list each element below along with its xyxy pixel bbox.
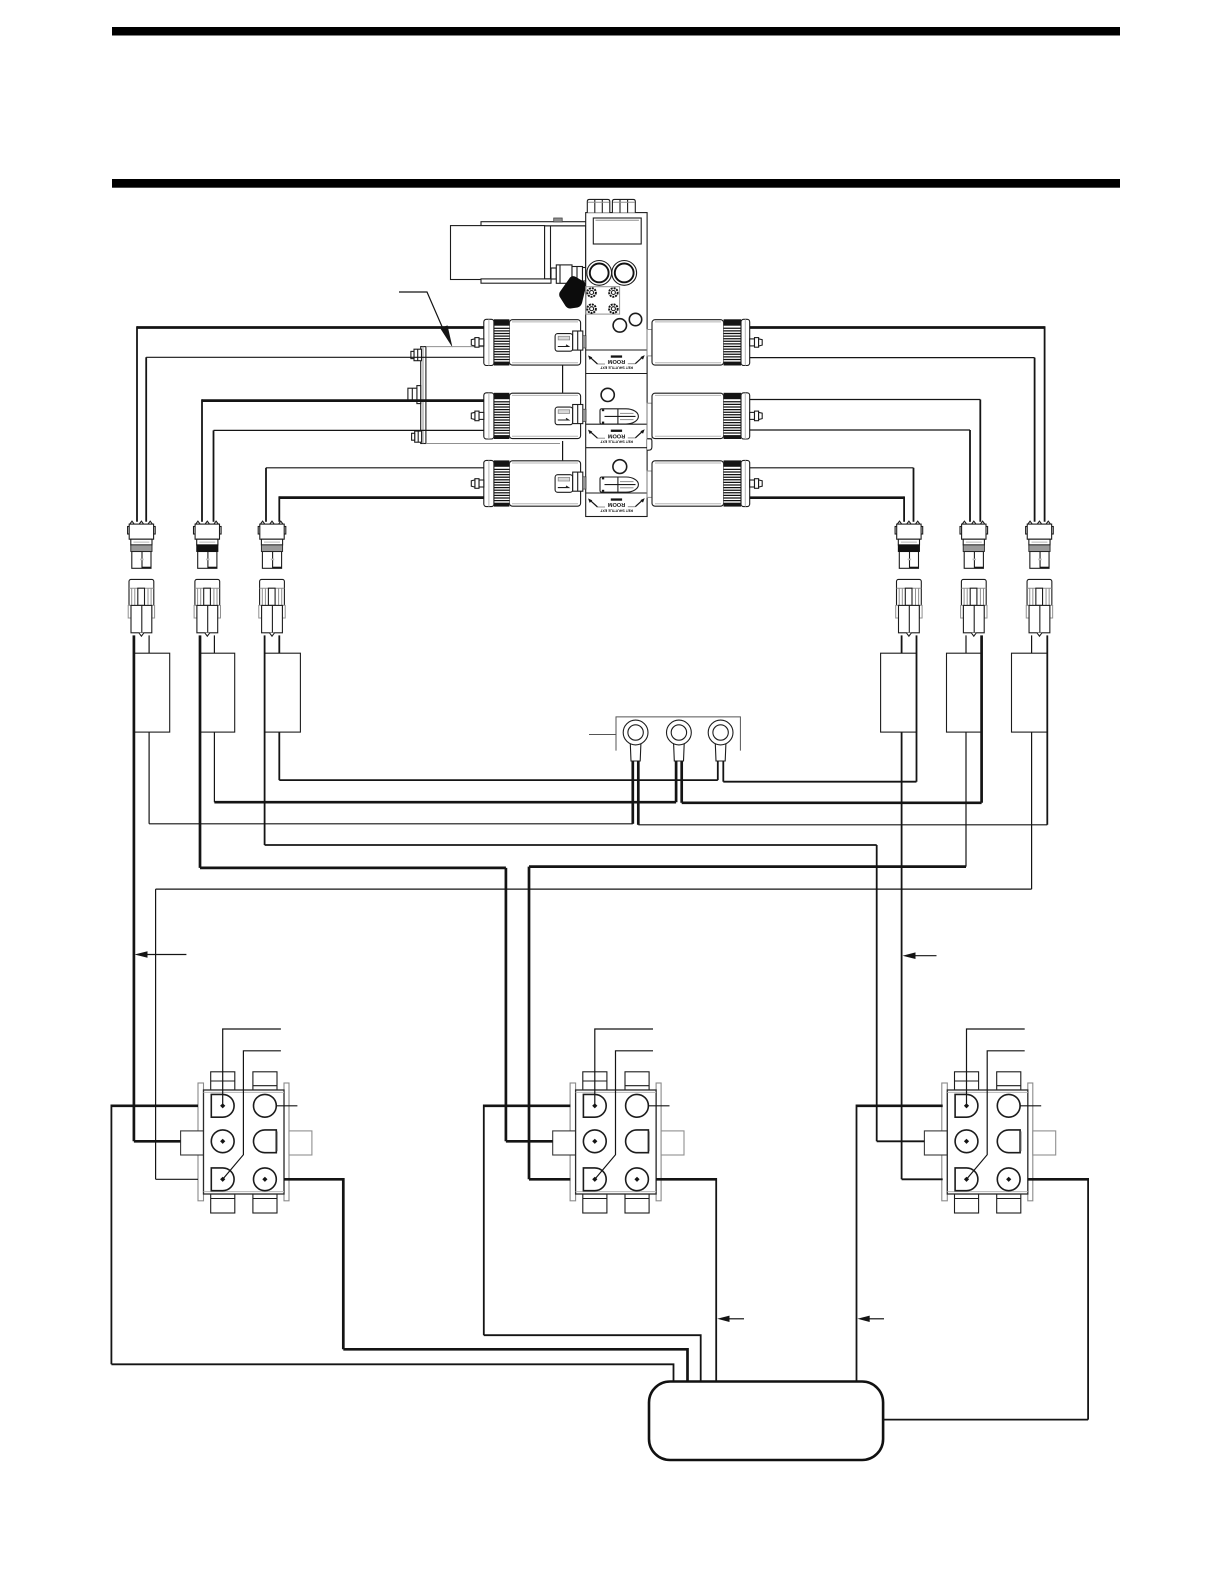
flow arrow 1 — [135, 951, 187, 958]
gear nut 1 — [587, 288, 596, 297]
manifold body — [586, 213, 647, 517]
bus wire diode D5 to valve block 2 row3 — [529, 865, 966, 868]
wire conn5-b drop — [980, 635, 983, 802]
wire block1 row3 return — [284, 1178, 343, 1181]
connector P4 receptacle — [896, 579, 922, 636]
wire conn2-b drop — [213, 635, 215, 802]
manifold left inter-coil link upper — [562, 366, 564, 393]
manifold band 1 (RET SHUTTLE EXT / ROOM) — [586, 350, 647, 374]
wire drop to block3 row2 — [876, 845, 878, 1141]
manifold right rounded tab band2 — [647, 439, 652, 450]
wire block3 row3 return — [1028, 1178, 1088, 1181]
wire conn4-a drop — [901, 635, 903, 1179]
wire block2 row1 drop — [483, 1105, 485, 1336]
ring T2 wire b — [680, 761, 683, 803]
solenoid coil R2 — [652, 393, 762, 439]
manifold right stub tab row2 — [647, 403, 652, 438]
wire block1 row2 feed — [134, 1140, 181, 1143]
callout leader line — [399, 292, 444, 330]
diode box D1 — [134, 653, 170, 732]
solenoid coil L2 — [471, 393, 586, 439]
ring terminal T1 — [623, 720, 648, 761]
manifold section 3 circle — [613, 460, 627, 474]
connector P4 plug — [895, 521, 923, 568]
wire conn6-a drop — [1031, 635, 1033, 889]
wire R1 lead A drop — [1044, 326, 1046, 522]
bus wire conn1-b to ring T1 — [149, 823, 633, 825]
manifold section 3 cartridge — [600, 477, 638, 492]
pump right section — [545, 226, 586, 279]
bus wire conn3-b to ring T3 — [279, 779, 718, 781]
wire L2 lead B — [214, 429, 485, 431]
wire block2 return drop — [715, 1178, 717, 1383]
pump bottom plate — [481, 279, 551, 283]
wire R3 lead B drop — [903, 496, 905, 521]
wire block2 row2 feed — [506, 1140, 553, 1143]
ring T1 wire a — [631, 761, 634, 824]
pump section divider — [550, 226, 552, 279]
ring T3 wire b — [722, 761, 724, 782]
gauge circle right — [612, 261, 637, 286]
terminal strip leader — [589, 734, 616, 736]
wire L2 lead A drop — [201, 399, 203, 522]
manifold band 3 (RET SHUTTLE EXT / ROOM) — [586, 493, 647, 517]
wire R2 lead B drop — [969, 430, 971, 522]
wire conn4-b drop — [916, 635, 918, 781]
manifold display window — [593, 218, 641, 244]
wire R3 lead A — [750, 467, 914, 469]
connector P3 plug — [258, 521, 286, 568]
terminal strip outline — [616, 717, 740, 751]
wire L1 lead B drop — [145, 357, 147, 522]
wire L1 lead A drop — [136, 326, 138, 522]
solenoid coil L1 — [471, 319, 586, 365]
bus wire conn3-a to valve block 3 — [265, 844, 877, 846]
wire L3 lead B — [279, 496, 484, 499]
manifold castle connector group 2 — [612, 199, 635, 212]
diode box D2 — [200, 653, 235, 732]
bracket top edge — [426, 346, 484, 348]
connector P1 receptacle — [128, 579, 154, 636]
flow arrow 4 — [857, 1316, 884, 1322]
bus wire ring T3 to diode D4 — [723, 781, 916, 783]
pump plate tab — [554, 218, 563, 222]
bus wire ring T1 to diode D6 — [638, 824, 1047, 826]
reservoir (rounded box) — [649, 1382, 883, 1461]
small port circle upper — [629, 313, 641, 325]
gear nut 4 — [609, 304, 618, 313]
manifold right stub tab row3 — [647, 471, 652, 497]
wire R3 lead B — [750, 496, 904, 499]
wire block1 row1 drop — [110, 1105, 112, 1365]
bus wire block1 return to reservoir — [343, 1349, 687, 1383]
solenoid coil L3 — [471, 460, 586, 506]
wire conn3-b drop — [278, 635, 280, 780]
connector P2 plug — [194, 521, 222, 568]
diode box D5 — [947, 653, 982, 732]
gauge circle left — [587, 261, 612, 286]
flow arrow 2 — [903, 952, 937, 959]
flow arrow 3 — [717, 1316, 744, 1322]
diode box D6 — [1012, 653, 1048, 732]
connector P1 plug — [128, 521, 156, 568]
bracket bolt 3 — [412, 431, 422, 442]
connector P5 receptacle — [961, 579, 987, 636]
wire R1 lead A — [750, 326, 1045, 329]
ring T1 wire b — [637, 761, 640, 825]
bus wire block1 row1 to reservoir — [111, 1364, 673, 1383]
wire L2 lead B drop — [213, 430, 215, 521]
connector P6 receptacle — [1026, 579, 1052, 636]
wire drop to block2 row3 — [528, 867, 531, 1180]
nut mounting plate — [586, 287, 620, 314]
wire R2 lead A — [750, 399, 981, 401]
manifold section 2 circle — [601, 388, 614, 401]
pump top plate — [481, 222, 588, 226]
wire block1 row3 feed — [156, 1178, 198, 1180]
diode box D4 — [881, 653, 917, 732]
top rule bar 2 — [112, 179, 1120, 188]
manifold left inter-coil link lower — [562, 441, 564, 460]
bracket bottom edge — [426, 443, 560, 445]
wire L3 lead A — [266, 467, 484, 469]
wire conn6-b drop — [1046, 635, 1048, 824]
top rule bar 1 — [112, 27, 1120, 36]
wire block3 row3 feed — [902, 1178, 943, 1180]
wire block3 row1 drop — [856, 1105, 858, 1384]
bus wire reservoir to block3 return — [883, 1419, 1088, 1421]
solenoid coil R1 — [652, 319, 762, 365]
manifold section 2 cartridge — [600, 409, 638, 424]
gear nut 2 — [609, 288, 618, 297]
solenoid coil R3 — [652, 460, 762, 506]
wire L2 lead A — [202, 399, 484, 402]
connector P2 receptacle — [194, 579, 220, 636]
wire block2 row3 return — [656, 1178, 716, 1181]
wire conn1-b drop — [148, 635, 150, 823]
wire R1 lead B drop — [1034, 358, 1036, 522]
wire block2 row1 feed — [484, 1104, 571, 1107]
ring terminal T2 — [667, 720, 692, 761]
gear nut 3 — [587, 304, 596, 313]
wire L3 lead A drop — [265, 468, 267, 522]
connector P5 plug — [960, 521, 988, 568]
diode box D3 — [265, 653, 301, 732]
wire conn5-a drop — [965, 635, 967, 866]
pump outlet hex fitting — [551, 265, 586, 283]
valve block 1 — [181, 1029, 312, 1213]
wire L1 lead B — [146, 356, 484, 358]
callout arrowhead — [440, 325, 452, 347]
wire R3 lead A drop — [913, 468, 915, 522]
bus wire conn2-b to ring T2 — [214, 801, 676, 804]
wire drop to block1 row3 — [155, 889, 157, 1179]
manifold castle connector group 1 — [587, 199, 610, 212]
connector P6 plug — [1026, 521, 1054, 568]
ring T2 wire a — [675, 761, 678, 802]
bus wire ring T2 to diode D5 — [682, 801, 982, 804]
bracket bolt 2 — [408, 386, 421, 404]
wire block3 row1 feed — [857, 1104, 943, 1107]
ring terminal T3 — [708, 720, 733, 761]
pump main box — [451, 226, 545, 280]
wire R1 lead B — [750, 357, 1035, 359]
bus wire conn2-a to valve block 2 row2 — [200, 867, 506, 870]
bus wire block1 row3 to diode D6 — [156, 888, 1032, 890]
valve block 3 — [924, 1029, 1055, 1213]
wire R2 lead A drop — [979, 400, 981, 522]
manifold right stub tab row1 — [647, 330, 652, 356]
wire drop to block2 row2 — [505, 868, 508, 1141]
wire conn3-a drop — [264, 635, 266, 845]
wire block1 row1 feed — [111, 1104, 198, 1107]
wire conn1-a drop to valve block 1 — [133, 635, 136, 1141]
bracket bolt 1 — [411, 349, 422, 361]
wire block1 return drop — [342, 1178, 345, 1349]
wire block3 return drop — [1087, 1178, 1089, 1420]
wire block3 row2 feed — [877, 1140, 925, 1142]
valve block 2 — [553, 1029, 684, 1213]
wire L1 lead A — [137, 326, 484, 329]
wire L3 lead B drop — [278, 496, 280, 522]
connector P3 receptacle — [259, 579, 285, 636]
bus wire block2 row1 to reservoir — [484, 1335, 701, 1383]
wire R2 lead B — [750, 429, 970, 431]
wire block2 row3 feed — [529, 1178, 570, 1181]
manifold band 2 (RET SHUTTLE EXT / ROOM) — [586, 424, 647, 448]
pump handle (black blob) — [559, 276, 586, 308]
small port circle lower — [613, 319, 626, 332]
ring T3 wire a — [717, 761, 719, 780]
wire conn2-a drop — [199, 635, 202, 868]
bracket plate — [421, 347, 426, 444]
